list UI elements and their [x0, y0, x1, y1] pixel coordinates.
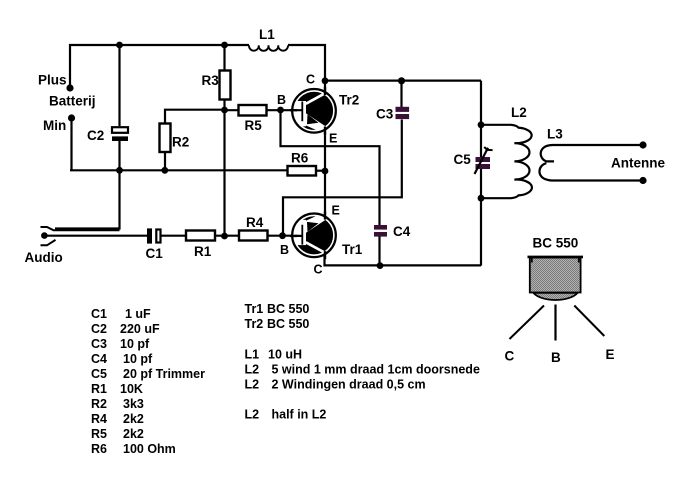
svg-text:20 pf Trimmer: 20 pf Trimmer — [123, 367, 205, 381]
wire R2 top — [165, 110, 225, 124]
svg-text:E: E — [606, 347, 615, 362]
node R3 R5 junction — [221, 107, 228, 114]
svg-text:2k2: 2k2 — [123, 412, 144, 426]
wire R5 leads — [225, 109, 294, 111]
svg-text:L1: L1 — [245, 348, 260, 362]
resistor R5 — [239, 105, 267, 116]
wire C3 top lead — [400, 81, 402, 107]
svg-text:10 uH: 10 uH — [268, 348, 302, 362]
svg-text:BC 550: BC 550 — [533, 236, 579, 251]
wire Tr2 collector node — [325, 79, 481, 81]
svg-text:R4: R4 — [246, 215, 264, 230]
svg-text:R6: R6 — [91, 442, 107, 456]
wire top rail right of L1 — [288, 45, 325, 90]
wire Min to ground rail — [70, 118, 72, 170]
svg-text:BC 550: BC 550 — [267, 317, 309, 331]
node junction top rail C2 — [116, 42, 123, 49]
svg-text:R1: R1 — [91, 382, 107, 396]
ground rail — [70, 169, 288, 171]
node ground rail C2 — [116, 167, 123, 174]
resistor R1 — [186, 231, 215, 241]
svg-text:L1: L1 — [259, 27, 275, 42]
svg-text:B: B — [277, 93, 286, 107]
svg-text:L2: L2 — [511, 105, 527, 120]
inductor L1 — [249, 45, 288, 51]
wire audio line — [44, 235, 293, 237]
svg-text:Tr2: Tr2 — [245, 317, 264, 331]
parts list left column — [91, 307, 205, 456]
svg-text:C: C — [505, 349, 515, 364]
svg-text:C3: C3 — [376, 107, 394, 122]
node Tr2 base — [277, 107, 284, 114]
svg-text:R1: R1 — [194, 244, 212, 259]
svg-text:E: E — [329, 132, 337, 146]
svg-text:E: E — [332, 204, 340, 218]
node L2 bottom tap — [478, 195, 485, 202]
svg-text:220 uF: 220 uF — [120, 322, 160, 336]
svg-text:R2: R2 — [172, 135, 189, 150]
node L2 top tap — [478, 121, 485, 128]
svg-text:R2: R2 — [91, 397, 107, 411]
svg-text:C4: C4 — [393, 224, 411, 239]
svg-text:L3: L3 — [547, 127, 563, 142]
node Tr1 base — [279, 232, 286, 239]
capacitor C5 trimmer — [475, 147, 493, 174]
svg-text:C5: C5 — [454, 152, 472, 167]
audio jack lower contact — [41, 240, 56, 245]
node antenna top — [639, 141, 646, 148]
svg-text:5 wind 1 mm draad 1cm doorsne: 5 wind 1 mm draad 1cm doorsnede — [272, 363, 480, 377]
transistor Tr1 — [290, 212, 336, 260]
svg-text:10 pf: 10 pf — [123, 352, 153, 366]
transistor package body — [530, 258, 581, 293]
wire R2 bottom — [164, 152, 166, 170]
svg-text:Tr1: Tr1 — [342, 242, 363, 257]
svg-text:C4: C4 — [91, 352, 107, 366]
svg-text:C2: C2 — [87, 128, 104, 143]
svg-text:C2: C2 — [91, 322, 107, 336]
svg-text:1 uF: 1 uF — [125, 307, 151, 321]
resistor R6 — [288, 166, 317, 176]
wire C2 branch vertical — [55, 44, 120, 229]
svg-text:C3: C3 — [91, 337, 107, 351]
node ground rail R2 — [161, 167, 168, 174]
resistor R3 — [220, 71, 231, 100]
wire right vertical tank — [480, 81, 482, 266]
capacitor C4 — [374, 225, 387, 237]
svg-text:C: C — [314, 263, 323, 277]
parts list right column — [245, 302, 480, 422]
svg-text:L2: L2 — [245, 408, 260, 422]
resistor R4 — [239, 231, 268, 241]
node Plus terminal — [66, 84, 73, 91]
wire top rail left — [70, 45, 249, 86]
wire R6 right lead — [316, 170, 325, 172]
svg-text:R4: R4 — [91, 412, 107, 426]
node audio R3 junction — [221, 233, 228, 240]
svg-text:C: C — [306, 73, 315, 87]
svg-text:10K: 10K — [120, 382, 143, 396]
svg-text:Tr2: Tr2 — [339, 93, 359, 108]
svg-text:B: B — [551, 350, 561, 365]
capacitor C3 — [396, 107, 410, 119]
svg-text:3k3: 3k3 — [123, 397, 144, 411]
svg-text:R3: R3 — [202, 73, 220, 88]
svg-text:R5: R5 — [245, 118, 263, 133]
inductor L2 — [481, 125, 532, 198]
svg-text:L2: L2 — [245, 378, 260, 392]
svg-text:C1: C1 — [146, 246, 164, 261]
node antenna bottom — [639, 177, 646, 184]
svg-text:Batterij: Batterij — [49, 94, 96, 109]
svg-text:Tr1: Tr1 — [245, 302, 264, 316]
wire R3 column — [223, 44, 225, 236]
svg-text:R6: R6 — [291, 151, 309, 166]
node junction top rail R3 — [221, 42, 228, 49]
wire Tr2 base to C4 — [281, 110, 380, 225]
capacitor C2 — [112, 127, 128, 141]
svg-text:Plus: Plus — [38, 73, 67, 88]
node C3 top junction — [398, 77, 405, 84]
svg-text:10 pf: 10 pf — [120, 337, 150, 351]
wire Tr1 collector to bottom rail — [325, 254, 482, 265]
capacitor C1 — [147, 228, 161, 243]
wire C3 bottom to Tr1 base — [283, 120, 402, 236]
pin lead E — [574, 306, 604, 337]
svg-text:half in L2: half in L2 — [272, 408, 327, 422]
resistor R2 — [160, 124, 171, 153]
pin lead C — [510, 306, 545, 340]
svg-text:Antenne: Antenne — [611, 156, 665, 171]
wire emitter column — [324, 132, 326, 214]
node bottom rail C4 — [377, 262, 384, 269]
node Min terminal — [68, 114, 75, 121]
svg-text:C5: C5 — [91, 367, 107, 381]
svg-text:B: B — [280, 243, 289, 257]
svg-text:L2: L2 — [245, 363, 260, 377]
svg-text:2k2: 2k2 — [123, 427, 144, 441]
inductor L3 — [539, 145, 643, 181]
wire C4 bottom lead — [378, 237, 380, 266]
svg-text:100 Ohm: 100 Ohm — [123, 442, 176, 456]
svg-text:Audio: Audio — [25, 250, 63, 265]
audio jack upper contact — [41, 227, 120, 230]
node audio jack tip — [41, 232, 48, 239]
BC550 package drawing — [510, 257, 605, 341]
svg-text:C1: C1 — [91, 307, 107, 321]
node emitter R6 junction — [322, 168, 329, 175]
svg-text:2 Windingen draad 0,5 cm: 2 Windingen draad 0,5 cm — [272, 378, 426, 392]
svg-text:Min: Min — [43, 118, 66, 133]
svg-text:R5: R5 — [91, 427, 107, 441]
pin lead B — [554, 305, 556, 341]
svg-text:BC 550: BC 550 — [267, 302, 309, 316]
node Tr2 collector — [322, 77, 329, 84]
